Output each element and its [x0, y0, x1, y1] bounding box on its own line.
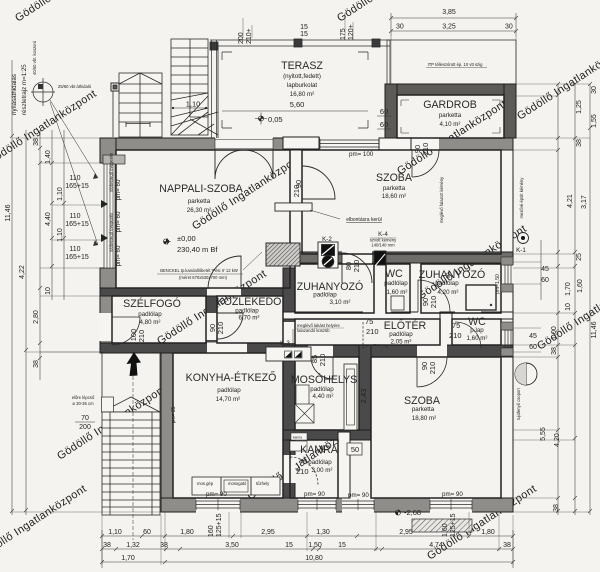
svg-text:16,80 m²: 16,80 m² — [290, 91, 314, 98]
K-4 black in wall — [374, 251, 386, 265]
svg-text:18,60 m²: 18,60 m² — [382, 193, 406, 200]
svg-text:1,60: 1,60 — [442, 523, 449, 537]
kamra right nib — [338, 432, 350, 498]
svg-text:14,70 m²: 14,70 m² — [216, 396, 240, 403]
svg-text:pm= 90: pm= 90 — [348, 492, 369, 499]
bottom dim lines — [102, 535, 513, 537]
wall moso bottom y430 — [283, 430, 371, 440]
svg-text:15: 15 — [300, 24, 308, 31]
terrace pillar 1 — [210, 42, 218, 50]
svg-text:padlólap: padlólap — [138, 311, 162, 318]
K-1 chimney symbol — [518, 233, 529, 244]
right wall 45/60 dims — [513, 262, 541, 352]
svg-text:210: 210 — [318, 354, 327, 367]
svg-text:165+15: 165+15 — [65, 221, 89, 228]
dim texts bottom — [103, 513, 511, 562]
top wall opening: window pm100 — [320, 138, 379, 151]
K-3 symbol box — [266, 347, 311, 361]
svg-text:padlólap: padlólap — [308, 459, 332, 466]
svg-text:1,80: 1,80 — [180, 529, 194, 536]
stair landing box — [190, 93, 208, 117]
svg-text:1,30: 1,30 — [316, 529, 330, 536]
svg-text:38: 38 — [160, 542, 168, 549]
svg-text:tűzhely: tűzhely — [256, 481, 270, 486]
opening nappali-szoba door — [290, 167, 303, 199]
svg-text:padlólap: padlólap — [389, 331, 413, 338]
porch gable roof lines — [102, 397, 160, 412]
svg-text:4,74: 4,74 — [429, 542, 443, 549]
right wall circle symbol — [515, 363, 537, 385]
terrace french doors into nappali — [215, 150, 273, 179]
svg-text:kamra: kamra — [293, 436, 302, 440]
terrace front double line — [210, 39, 390, 41]
szoba top interior — [302, 150, 501, 254]
gardrob left wall — [385, 84, 397, 138]
svg-text:KÖZLEKEDŐ: KÖZLEKEDŐ — [217, 294, 282, 308]
svg-text:többrétegű üvegezés: többrétegű üvegezés — [109, 153, 114, 192]
moso door85 arc — [311, 357, 333, 379]
svg-text:1,32: 1,32 — [126, 542, 140, 549]
konyha interior — [173, 353, 283, 498]
bottom ticks row2 — [100, 547, 515, 551]
svg-text:nyílásáthidalás: nyílásáthidalás — [11, 74, 18, 115]
svg-text:pm= 60: pm= 60 — [115, 211, 122, 232]
zuh2 interior — [421, 264, 501, 313]
szoba bottom door arc — [417, 357, 447, 387]
kamra shelf — [290, 441, 307, 451]
svg-text:1,70: 1,70 — [565, 282, 572, 296]
svg-text:padlólap: padlólap — [384, 280, 408, 287]
svg-text:25/60 vbt áthidaló: 25/60 vbt áthidaló — [58, 84, 92, 89]
svg-text:210: 210 — [292, 185, 301, 198]
svg-text:1,00: 1,00 — [551, 326, 558, 340]
svg-text:2,43: 2,43 — [359, 389, 368, 404]
svg-text:ELŐTÉR: ELŐTÉR — [384, 318, 427, 332]
left wall window band nappali — [104, 163, 115, 268]
wall G moso/szoba vertical — [359, 345, 371, 440]
terrace door threshold lines — [215, 138, 273, 150]
eloter door75 arc — [363, 322, 389, 348]
svg-text:200: 200 — [238, 32, 245, 44]
svg-text:210: 210 — [296, 467, 309, 476]
svg-text:125+15: 125+15 — [216, 513, 223, 537]
top wall white pier between terrace door and window — [283, 137, 319, 149]
gardrob eaves outline — [387, 40, 516, 84]
deck gable — [119, 73, 162, 84]
gardrob top wall — [385, 84, 516, 95]
detail circle symbol — [33, 82, 53, 102]
wall below szelfogo/kozlekedo (y343) — [100, 343, 295, 353]
svg-text:15: 15 — [338, 542, 346, 549]
svg-text:25: 25 — [576, 253, 583, 261]
svg-text:4,80 m²: 4,80 m² — [140, 319, 161, 326]
K-2 box — [318, 242, 338, 268]
gardrob right wall — [504, 84, 516, 138]
nappali interior — [116, 150, 290, 288]
corner marks — [222, 52, 368, 128]
svg-text:K-1: K-1 — [516, 247, 526, 254]
svg-text:75: 75 — [299, 457, 307, 466]
kamra door75 arc — [290, 457, 318, 485]
svg-text:38: 38 — [503, 542, 511, 549]
leader lines to windows — [50, 100, 98, 245]
svg-text:2,95: 2,95 — [261, 529, 275, 536]
bottom exterior wall — [161, 498, 513, 512]
nappali-szoba door arc — [302, 166, 335, 199]
eloter interior — [295, 319, 440, 345]
dim texts left — [5, 138, 95, 431]
svg-text:2,05 m²: 2,05 m² — [391, 339, 412, 346]
moso X box — [295, 404, 314, 423]
svg-text:210: 210 — [429, 296, 438, 309]
top dim lines — [391, 17, 516, 19]
fireplace hatched — [266, 243, 300, 266]
svg-text:5,55: 5,55 — [540, 427, 547, 441]
zuh1 interior — [295, 264, 374, 313]
left exterior wall lower block — [100, 268, 116, 296]
svg-text:p.lap: p.lap — [470, 327, 484, 334]
moso washer — [296, 385, 309, 405]
wall kozlekedo right x283 — [283, 268, 295, 353]
szelfogo door opening left wall — [100, 313, 113, 341]
svg-text:210: 210 — [421, 143, 430, 156]
svg-text:mos.gép: mos.gép — [197, 481, 214, 486]
wc1 toilet — [391, 296, 404, 310]
svg-text:pm= 90: pm= 90 — [304, 491, 325, 498]
wall F y345 — [283, 345, 513, 357]
svg-text:140/140 mm: 140/140 mm — [371, 243, 395, 248]
stair block outline — [171, 39, 208, 135]
svg-text:parketta: parketta — [188, 198, 211, 205]
svg-text:(nyitott,fedett): (nyitott,fedett) — [283, 73, 321, 80]
svg-text:60: 60 — [380, 120, 388, 129]
svg-text:4,40 m²: 4,40 m² — [313, 393, 334, 400]
svg-text:11,46: 11,46 — [591, 321, 598, 338]
svg-text:210: 210 — [428, 362, 437, 375]
bottom wall window openings — [196, 498, 240, 513]
dim texts top — [238, 9, 513, 44]
wall szelfogo/kozlekedo vertical — [206, 296, 217, 343]
svg-text:NAPPALI-SZOBA: NAPPALI-SZOBA — [159, 183, 243, 195]
wall E eloter/wc2 vertical — [440, 312, 452, 345]
wc2 interior — [452, 319, 501, 345]
svg-text:K-2: K-2 — [322, 236, 332, 243]
svg-text:előre lépcső: előre lépcső — [72, 395, 95, 400]
dim texts right — [529, 86, 598, 512]
svg-text:75: 75 — [452, 321, 460, 330]
svg-text:30: 30 — [505, 24, 513, 31]
svg-text:SZOBA: SZOBA — [376, 172, 413, 184]
svg-text:210: 210 — [137, 330, 146, 343]
stair winders — [171, 93, 218, 135]
svg-text:2,95: 2,95 — [399, 529, 413, 536]
svg-text:4,21: 4,21 — [567, 194, 574, 208]
opening kozlekedo-eloter — [283, 322, 296, 343]
svg-text:1,10: 1,10 — [186, 100, 201, 109]
deck corner sq — [111, 83, 119, 91]
svg-text:parketta: parketta — [412, 406, 435, 413]
svg-text:4,22: 4,22 — [19, 265, 26, 279]
svg-text:WC: WC — [385, 268, 403, 280]
svg-text:38: 38 — [576, 139, 583, 147]
svg-text:1,50: 1,50 — [308, 542, 322, 549]
terrace parapet at stairs — [212, 40, 217, 138]
svg-text:falazandó küszöb: falazandó küszöb — [297, 328, 330, 333]
svg-text:10: 10 — [45, 287, 52, 295]
right wall window opening zuh — [501, 265, 514, 284]
svg-text:4,10 m²: 4,10 m² — [440, 121, 461, 128]
bottom ticks row3 — [100, 560, 515, 564]
opening door 80 zuh — [342, 252, 372, 264]
left exterior wall upper block — [100, 138, 116, 163]
terrace right edge line — [389, 40, 391, 84]
left horizontal guides — [12, 138, 162, 512]
svg-text:pm= 35: pm= 35 — [171, 406, 177, 423]
svg-text:30: 30 — [396, 24, 404, 31]
top wall opening: terrace door — [215, 138, 273, 151]
svg-text:5,60: 5,60 — [290, 100, 305, 109]
svg-text:padlólap: padlólap — [217, 387, 241, 394]
svg-text:210: 210 — [449, 331, 462, 340]
szelfogo interior — [112, 296, 206, 343]
svg-text:meglévő falazott kémény: meglévő falazott kémény — [439, 176, 444, 223]
svg-text:2,80: 2,80 — [33, 310, 40, 324]
svg-text:GARDROB: GARDROB — [423, 99, 477, 111]
svg-text:110: 110 — [69, 246, 80, 253]
ext stair center dashed — [132, 352, 134, 540]
svg-text:210+: 210+ — [246, 28, 253, 44]
wc1 interior — [386, 264, 410, 313]
kamra top small box — [291, 433, 307, 440]
svg-text:1,25: 1,25 — [576, 100, 583, 114]
top wall opening: gardrob door — [411, 138, 439, 151]
svg-text:ITP télleszórott ép. 10 vtt sz: ITP télleszórott ép. 10 vtt szig — [428, 62, 484, 67]
opening moso door85 — [308, 345, 333, 358]
svg-text:4,20: 4,20 — [554, 433, 561, 447]
svg-text:BENCKEL tp.kandallóbetét 'Pés: BENCKEL tp.kandallóbetét 'Pési II' 12 kW — [160, 268, 238, 273]
svg-text:1,10: 1,10 — [108, 529, 122, 536]
gardrob interior — [397, 95, 504, 138]
svg-text:mosogató: mosogató — [228, 481, 247, 486]
right exterior wall — [501, 150, 513, 498]
gardrob corner marks — [401, 100, 500, 133]
svg-text:K-3: K-3 — [280, 340, 290, 347]
wall B zuh/wc vertical — [374, 263, 386, 313]
svg-text:38: 38 — [553, 504, 560, 512]
right wall window zuh2 — [503, 265, 513, 284]
zuh2 shower tray — [466, 285, 496, 310]
svg-text:60: 60 — [380, 107, 388, 116]
opening zuh2 door90 — [418, 312, 452, 320]
svg-text:45: 45 — [529, 333, 537, 340]
svg-text:4,40: 4,40 — [45, 212, 52, 226]
svg-text:0,05: 0,05 — [268, 115, 283, 124]
svg-text:elbontásra kerül: elbontásra kerül — [346, 217, 382, 223]
left dim lines — [11, 60, 13, 515]
svg-text:MOSÓHELYS: MOSÓHELYS — [291, 373, 357, 386]
svg-text:175: 175 — [340, 28, 347, 40]
svg-text:38: 38 — [33, 360, 40, 368]
top main wall — [100, 138, 513, 150]
svg-text:1,60 m²: 1,60 m² — [467, 335, 488, 342]
svg-text:padlólap: padlólap — [313, 292, 337, 299]
svg-text:165+15: 165+15 — [65, 254, 89, 261]
svg-text:45: 45 — [541, 266, 549, 273]
stair treads — [171, 48, 208, 93]
svg-text:3,10 m²: 3,10 m² — [330, 299, 351, 306]
svg-text:120+: 120+ — [348, 24, 355, 40]
svg-text:165+15: 165+15 — [65, 183, 89, 190]
szoba bottom interior — [371, 357, 501, 498]
svg-text:15: 15 — [300, 31, 308, 38]
svg-text:padlólap: padlólap — [310, 386, 334, 393]
opening kozlekedo-konyha — [207, 343, 247, 354]
svg-text:38: 38 — [33, 138, 40, 146]
svg-text:60: 60 — [529, 344, 537, 351]
svg-text:parketta: parketta — [383, 185, 406, 192]
svg-text:10,80: 10,80 — [305, 555, 323, 562]
stair center line — [189, 39, 191, 117]
svg-text:3,50: 3,50 — [225, 542, 239, 549]
deck slats — [119, 84, 162, 122]
svg-text:többrétegű üvegezés: többrétegű üvegezés — [109, 213, 114, 252]
top guide extensions — [391, 36, 516, 84]
svg-text:3,00 m²: 3,00 m² — [312, 467, 333, 474]
svg-text:3,17: 3,17 — [581, 195, 588, 209]
svg-text:pm= 60: pm= 60 — [115, 179, 122, 200]
opening kamra door75 — [283, 455, 296, 483]
konyha left exterior wall — [161, 352, 173, 498]
svg-text:1,10: 1,10 — [57, 228, 64, 242]
svg-text:30: 30 — [591, 86, 598, 94]
svg-text:pm= 90: pm= 90 — [206, 491, 227, 498]
bottom ticks row1 — [100, 534, 515, 538]
svg-text:pm= 90: pm= 90 — [442, 491, 463, 498]
moso tall cabinet — [344, 364, 357, 430]
tiny annotations — [109, 100, 501, 486]
wc2 door arc — [455, 322, 481, 348]
svg-text:3,85: 3,85 — [442, 9, 456, 16]
kamra 50 box — [347, 443, 362, 455]
kamra interior — [290, 440, 338, 498]
svg-text:pm=1,50: pm=1,50 — [495, 274, 501, 294]
right dim lines — [540, 240, 542, 300]
gardrob door arc into szoba — [412, 150, 439, 177]
svg-text:230,40 m Bf: 230,40 m Bf — [177, 245, 218, 254]
ext stair treads — [102, 420, 160, 507]
right wall piers — [501, 257, 513, 265]
svg-text:70: 70 — [81, 415, 89, 422]
svg-text:tujafenyő csoport: tujafenyő csoport — [516, 387, 521, 420]
zuh1 door80 arc — [342, 253, 372, 283]
wall nappali/szoba vertical x290 — [290, 150, 302, 254]
svg-text:KAMRA: KAMRA — [300, 444, 339, 456]
svg-text:mezővé épült kémény: mezővé épült kémény — [519, 177, 524, 219]
szelfogo-kozlekedo door arc — [217, 313, 243, 339]
svg-text:60: 60 — [541, 277, 549, 284]
GARDROB — [385, 40, 516, 138]
opening wc2 door — [455, 312, 481, 320]
svg-text:160: 160 — [208, 525, 215, 537]
svg-text:padlólap: padlólap — [435, 280, 459, 287]
svg-text:1,80: 1,80 — [481, 529, 495, 536]
svg-text:pm= 60: pm= 60 — [115, 245, 122, 266]
svg-text:110: 110 — [69, 213, 80, 220]
bottom windows glazing — [196, 500, 240, 510]
wall C wc/zuh2 vertical — [410, 263, 421, 313]
kozlekedo interior — [217, 296, 283, 343]
svg-text:1,60 m²: 1,60 m² — [387, 289, 408, 296]
wall D y313 — [283, 312, 513, 319]
szelfogo left wall — [100, 296, 112, 352]
nappali-kozlekedo door arc — [208, 256, 241, 289]
bottom window mullions — [218, 499, 451, 510]
svg-text:pm= 100: pm= 100 — [349, 151, 374, 158]
wall nappali/szelfogo-kozlekedo — [100, 288, 295, 296]
top wall window pm100 — [320, 139, 379, 149]
svg-text:-2,68: -2,68 — [404, 508, 421, 517]
svg-text:3,25: 3,25 — [442, 24, 456, 31]
opening szoba door90 — [417, 345, 447, 358]
svg-text:1,40: 1,40 — [45, 150, 52, 164]
svg-text:11,46: 11,46 — [5, 204, 12, 221]
svg-text:200: 200 — [79, 424, 91, 431]
svg-text:210: 210 — [216, 322, 225, 335]
svg-text:padlólap: padlólap — [235, 308, 259, 315]
kitchen counter — [192, 477, 280, 495]
radiator top-left nappali — [103, 155, 125, 164]
svg-text:125+15: 125+15 — [450, 513, 457, 537]
porch landing box — [102, 397, 114, 412]
svg-text:210: 210 — [352, 260, 361, 273]
svg-text:részletrajz m=1:25: részletrajz m=1:25 — [21, 64, 28, 115]
hatched strip below bottom wall right — [412, 519, 472, 532]
deck center post — [139, 73, 141, 137]
svg-text:4,20 m²: 4,20 m² — [438, 289, 459, 296]
svg-text:38: 38 — [103, 542, 111, 549]
entrance arrow — [127, 352, 142, 376]
deck bench — [113, 91, 150, 137]
ext stairs outline — [102, 412, 160, 515]
svg-text:26,30 m²: 26,30 m² — [187, 207, 211, 214]
svg-text:10: 10 — [565, 303, 572, 311]
wall A szoba bottom y254 — [283, 252, 513, 263]
svg-text:40/60 vbt. koszorú: 40/60 vbt. koszorú — [32, 40, 37, 75]
svg-text:ø 30-35 cm: ø 30-35 cm — [72, 401, 94, 406]
svg-text:1,55: 1,55 — [591, 114, 598, 128]
terrace left edge line — [217, 46, 219, 138]
stair guides top — [243, 13, 353, 40]
svg-text:TERASZ: TERASZ — [281, 60, 323, 72]
svg-text:SZÉLFOGÓ: SZÉLFOGÓ — [123, 297, 181, 310]
svg-text:±0,00: ±0,00 — [177, 234, 196, 243]
svg-text:1,70: 1,70 — [121, 555, 135, 562]
svg-text:50: 50 — [351, 445, 359, 454]
terrace pillar 3 — [372, 39, 380, 47]
svg-text:18,80 m²: 18,80 m² — [412, 415, 436, 422]
terrace pillar 2 — [294, 39, 302, 47]
svg-text:lapburkolat: lapburkolat — [287, 82, 318, 89]
svg-text:parketta: parketta — [439, 112, 462, 119]
wall stub elbontasra kerul — [275, 203, 312, 211]
level star nappali — [165, 239, 171, 245]
zuh2 door90 arc — [418, 280, 450, 312]
svg-text:KONYHA-ÉTKEZŐ: KONYHA-ÉTKEZŐ — [186, 370, 277, 384]
svg-text:15: 15 — [285, 542, 293, 549]
svg-text:6,70 m²: 6,70 m² — [239, 315, 260, 322]
stair dim line 1,10 — [172, 107, 207, 109]
opening nappali-kozlekedo door — [207, 288, 241, 297]
